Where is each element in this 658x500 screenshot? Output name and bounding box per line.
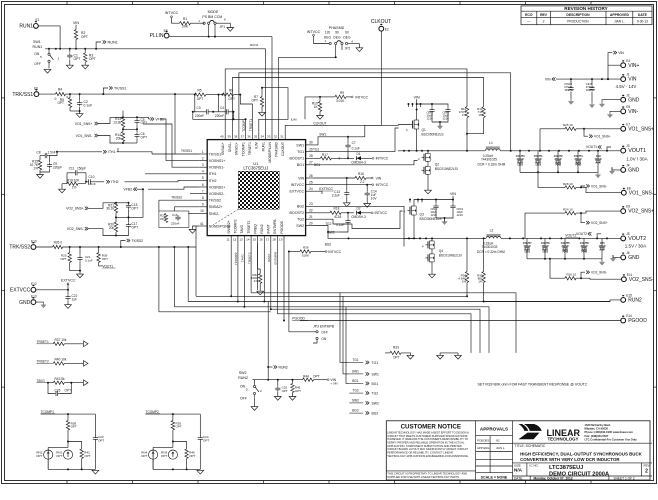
svg-text:INTVCC: INTVCC — [165, 11, 179, 15]
svg-text:DEG: DEG — [324, 35, 332, 39]
svg-text:LTC3875EUJ: LTC3875EUJ — [549, 465, 583, 471]
svg-text:SW2: SW2 — [239, 371, 247, 375]
svg-text:CLKOUT: CLKOUT — [281, 142, 285, 156]
jumper JP3 ENTMPB — [289, 325, 335, 344]
svg-text:INTVCC: INTVCC — [376, 183, 389, 187]
svg-text:GND: GND — [628, 97, 640, 103]
svg-text:1: 1 — [202, 150, 204, 154]
svg-text:1630 McCarthy Blvd.: 1630 McCarthy Blvd. — [585, 423, 612, 427]
svg-text:PS BM CCM: PS BM CCM — [202, 15, 222, 19]
wire BG2 label segment — [325, 242, 332, 246]
svg-text:C8: C8 — [36, 151, 40, 155]
svg-text:R28 10: R28 10 — [563, 182, 573, 186]
svg-text:OFF: OFF — [321, 330, 327, 334]
net stub BG1 — [349, 379, 378, 386]
svg-text:R16: R16 — [358, 172, 364, 176]
svg-text:20k: 20k — [109, 226, 115, 230]
resistor R14 20k — [115, 132, 125, 144]
svg-text:ENTMPB: ENTMPB — [274, 252, 278, 265]
wire RUN1 terminal to rail — [38, 26, 60, 49]
svg-text:E5: E5 — [626, 105, 630, 109]
U1 pin 39 SNS1- — [227, 132, 232, 152]
wire VFB1 to pin 2 — [161, 119, 200, 161]
svg-text:19: 19 — [279, 238, 283, 242]
svg-text:OPT: OPT — [393, 355, 400, 359]
svg-text:REV: REV — [540, 13, 548, 17]
svg-text:C26: C26 — [55, 388, 61, 392]
svg-text:OFF: OFF — [240, 397, 247, 401]
svg-text:SNSD1+: SNSD1+ — [235, 142, 239, 155]
svg-text:DESCRIPTION: DESCRIPTION — [566, 13, 590, 17]
svg-text:BOOST1: BOOST1 — [290, 157, 305, 161]
svg-text:21: 21 — [309, 215, 313, 219]
svg-text:OPT: OPT — [102, 257, 108, 261]
svg-text:D1: D1 — [356, 152, 360, 156]
svg-text:OPT: OPT — [176, 425, 182, 429]
capacitor C8 1.5nF — [36, 151, 58, 159]
svg-text:SW1: SW1 — [319, 133, 326, 137]
svg-text:ITH1: ITH1 — [209, 172, 217, 176]
inductor L1 0.25uH — [478, 141, 621, 166]
U1 pin 9 SNSA2+ — [200, 203, 223, 210]
ground for E13 — [36, 302, 46, 308]
wire ITH1 to pin 4 — [118, 148, 200, 174]
resistor R20 20k — [108, 222, 118, 236]
svg-text:13.3k: 13.3k — [113, 120, 121, 124]
wire PLLIN to MODE pin — [169, 36, 272, 133]
capacitor CIN5 10uF 1210 — [417, 104, 435, 122]
U1 pin 21 TG2 — [297, 215, 313, 222]
terminal E2 CLKOUT — [371, 19, 391, 31]
svg-text:J2: J2 — [626, 93, 630, 97]
svg-text:OPT: OPT — [197, 97, 204, 101]
U1 pin 1 TK/SS1 — [200, 150, 221, 157]
svg-text:J3: J3 — [626, 144, 630, 148]
svg-text:VO2_SNS-: VO2_SNS- — [67, 227, 84, 231]
svg-text:18: 18 — [272, 238, 276, 242]
U1 pin 17 IFAST — [266, 224, 271, 243]
capacitor C4 220nF — [213, 95, 234, 118]
capacitor CIN6 10uF 1210 — [431, 103, 451, 129]
svg-text:28: 28 — [309, 154, 313, 158]
svg-text:TRSET2: TRSET2 — [247, 220, 251, 233]
svg-text:OFF: OFF — [34, 62, 41, 66]
svg-text:VIN: VIN — [376, 176, 382, 180]
resistor R33 OPT — [385, 346, 414, 360]
capacitor C2 0.1uF — [76, 94, 92, 117]
net arrow VFB1 — [137, 117, 164, 121]
U1 pin 35 ILIM — [254, 132, 259, 149]
U1 pin 33 MODE/PLLIN — [267, 132, 272, 163]
svg-text:TG2: TG2 — [352, 389, 358, 393]
transistor Q4 BSC010NE2LSI — [422, 238, 462, 257]
net arrow ITH1 — [57, 150, 115, 154]
svg-text:0.1uF: 0.1uF — [336, 223, 344, 227]
node EXTVCC pin net — [313, 187, 334, 194]
U1 pin 10 SNS2- — [200, 209, 220, 216]
svg-text:Fax: (408)434-0507: Fax: (408)434-0507 — [585, 434, 609, 438]
wire EXTVCC — [36, 289, 69, 291]
terminal E7 VO1_SNS+ — [621, 122, 654, 132]
terminal E12 EXTVCC — [10, 282, 37, 293]
wire J2 gnd — [599, 100, 620, 108]
svg-text:E6: E6 — [34, 87, 38, 91]
svg-text:CLKOUT: CLKOUT — [313, 121, 326, 125]
title block title area — [513, 443, 653, 480]
svg-text:TCOMP2: TCOMP2 — [146, 410, 160, 414]
svg-text:8: 8 — [202, 196, 204, 200]
svg-text:R5: R5 — [198, 89, 202, 93]
svg-text:12: 12 — [233, 238, 237, 242]
svg-text:CMDSH-3: CMDSH-3 — [351, 215, 366, 219]
U1 pin 37 TCOMP1 — [241, 132, 246, 156]
svg-text:TECHNOLOGY: TECHNOLOGY — [548, 437, 579, 442]
svg-text:SW2: SW2 — [296, 224, 304, 228]
svg-text:+ VIN: + VIN — [330, 382, 337, 386]
svg-text:16V: 16V — [586, 88, 591, 92]
resistor R25 OPT — [60, 247, 80, 271]
U1 pin 7 VOSNS2- — [200, 189, 226, 196]
wire PHASMD to pin 32 — [279, 56, 337, 132]
svg-text:THIS CIRCUIT IS PROPRIETARY TO: THIS CIRCUIT IS PROPRIETARY TO LINEAR TE… — [387, 472, 467, 476]
svg-text:R25 10: R25 10 — [563, 123, 573, 127]
svg-text:OPT: OPT — [98, 438, 104, 442]
svg-text:90: 90 — [335, 31, 339, 35]
svg-text:ON: ON — [34, 52, 40, 56]
svg-text:RUN2: RUN2 — [279, 365, 288, 369]
wire TK/SS2 to pin 8 — [159, 195, 200, 211]
svg-text:BSC010NE2LSI: BSC010NE2LSI — [439, 253, 462, 257]
node VIN stage2 — [409, 192, 456, 204]
U1 pin 20 SW2 — [296, 221, 313, 228]
svg-text:36.1k: 36.1k — [106, 207, 114, 211]
U1 pin 30 SW1 — [296, 141, 313, 148]
svg-text:VO1_SNS+: VO1_SNS+ — [594, 135, 611, 139]
svg-text:TK/SS1: TK/SS1 — [209, 152, 221, 156]
resistor R6 OPT — [219, 89, 242, 101]
svg-text:16V: 16V — [564, 88, 569, 92]
resistor R28 10 sense — [520, 172, 621, 192]
resistor R44 OPT — [303, 374, 337, 382]
svg-text:TK/SS2: TK/SS2 — [209, 199, 221, 203]
svg-text:CMDSH-3: CMDSH-3 — [351, 161, 366, 165]
terminal VOUT2 J5 — [621, 232, 646, 242]
wire left risers to buses — [159, 247, 188, 312]
transistor Q2 BSC010NE2LSI — [418, 151, 458, 171]
svg-text:9: 9 — [202, 203, 204, 207]
capacitor C18 0.1uF — [335, 213, 350, 232]
svg-text:VOUT2: VOUT2 — [565, 234, 576, 238]
U1 pin 25 INTVCC — [291, 181, 313, 188]
resistor R43 5k TAVG — [37, 377, 89, 386]
svg-text:BSC050NE2LS: BSC050NE2LS — [422, 132, 444, 136]
svg-text:OPT: OPT — [282, 389, 288, 393]
svg-text:20k: 20k — [116, 137, 122, 141]
capacitor C20 100uF 10V — [598, 238, 606, 258]
svg-text:RUN1: RUN1 — [108, 41, 118, 45]
terminal E1 RUN1 — [19, 18, 39, 29]
title block customer notice — [386, 421, 650, 480]
svg-text:INTVCC: INTVCC — [328, 250, 341, 254]
svg-text:Phone: (408)432-1900 www.line: Phone: (408)432-1900 www.linear.com — [585, 430, 634, 434]
svg-text:VO1_SNS-: VO1_SNS- — [76, 134, 93, 138]
terminal E10 TRK/SS2 — [9, 239, 37, 250]
svg-text:VIN: VIN — [414, 96, 420, 100]
net arrow TK/SS2 — [121, 239, 143, 247]
capacitor COUT6 100uF 6.3V — [541, 238, 550, 258]
svg-text:2: 2 — [202, 156, 204, 160]
resistor R4 0 — [39, 88, 195, 155]
capacitor COUT7 100uF 6.3V — [523, 238, 532, 258]
wire ILIM to pin 35 — [259, 88, 297, 132]
svg-text:PRODUCTION: PRODUCTION — [567, 19, 589, 23]
svg-text:2.2: 2.2 — [360, 180, 365, 184]
svg-text:VOSNS2+: VOSNS2+ — [209, 185, 226, 189]
svg-text:OPT: OPT — [251, 98, 258, 102]
svg-text:1.0nF: 1.0nF — [88, 182, 96, 186]
svg-text:APP ENG.: APP ENG. — [477, 446, 490, 450]
U1 pin 16 RUN2 — [259, 224, 264, 243]
svg-text:JP1: JP1 — [220, 25, 226, 29]
svg-text:CONVERTER WITH VERY LOW DCR IN: CONVERTER WITH VERY LOW DCR INDUCTOR — [520, 457, 620, 462]
svg-text:SW1: SW1 — [372, 372, 379, 376]
svg-text:JIAN L.: JIAN L. — [496, 446, 505, 450]
resistor R1 20K — [180, 17, 205, 28]
capacitor CIN7 270uF 16V — [586, 79, 595, 108]
svg-text:SNSA1+: SNSA1+ — [221, 142, 225, 155]
capacitor C19 100uF 10V — [594, 151, 602, 173]
svg-text:OPT: OPT — [132, 226, 139, 230]
svg-text:TCOMP2: TCOMP2 — [234, 252, 238, 265]
svg-text:BG1: BG1 — [372, 382, 379, 386]
svg-text:1.5V / 30A: 1.5V / 30A — [625, 244, 647, 249]
svg-text:PHASMD: PHASMD — [275, 142, 279, 157]
svg-text:ITH1: ITH1 — [108, 150, 115, 154]
svg-text:C11: C11 — [69, 166, 75, 170]
svg-text:BG2: BG2 — [297, 205, 304, 209]
svg-text:SHEET 1 OF 2: SHEET 1 OF 2 — [614, 477, 635, 481]
svg-text:R9: R9 — [340, 91, 344, 95]
wire pin 41 SGND — [189, 226, 200, 296]
U1 pin 38 SNSD1+ — [234, 132, 239, 155]
svg-text:ON: ON — [321, 337, 326, 341]
svg-text:D2: D2 — [356, 207, 360, 211]
wire VFB2 junction — [128, 189, 144, 218]
wire PGOOD to bus — [300, 320, 621, 322]
svg-text:OPT: OPT — [81, 35, 88, 39]
resistor R9 3.01K — [319, 91, 369, 103]
svg-text:VIN: VIN — [618, 51, 624, 55]
svg-text:BG2: BG2 — [352, 409, 359, 413]
resistor R36 100K ENTMPB pullup — [288, 246, 342, 258]
svg-text:39: 39 — [227, 135, 231, 139]
node INTVCC for R1 — [165, 11, 180, 23]
svg-text:R18: R18 — [334, 207, 340, 211]
svg-text:26: 26 — [309, 174, 313, 178]
svg-text:SET R33=80K ohm FOR FAST TRANS: SET R33=80K ohm FOR FAST TRANSIENT RESPO… — [478, 382, 587, 386]
wire output gnd rail 2 — [527, 255, 616, 265]
svg-text:INTVCC: INTVCC — [375, 211, 388, 215]
svg-text:OPT: OPT — [295, 389, 301, 393]
svg-text:EXTVCC: EXTVCC — [10, 288, 31, 294]
svg-text:VOSNS1-: VOSNS1- — [209, 166, 226, 170]
svg-text:7343: 7343 — [555, 163, 561, 167]
capacitor C15 OPT — [116, 202, 138, 218]
svg-text:R4: R4 — [58, 88, 62, 92]
svg-text:VOUT2: VOUT2 — [628, 236, 646, 242]
svg-text:TK/SS1: TK/SS1 — [181, 149, 192, 153]
capacitor C17 OPT — [115, 217, 138, 236]
capacitor C16 220nF — [171, 213, 181, 226]
capacitor COUT4 330uF 2.5V — [574, 151, 583, 173]
transistor Q3 BSC050NE2LS — [403, 204, 441, 239]
svg-text:RUN1: RUN1 — [261, 142, 265, 151]
jumper JP2 PHASMD — [324, 26, 363, 57]
svg-text:PHASMD: PHASMD — [329, 26, 345, 30]
svg-text:IFAST: IFAST — [267, 253, 271, 262]
svg-text:1%: 1% — [462, 280, 467, 284]
wire SNS1- sense line — [232, 78, 483, 133]
wire RUN2 node — [252, 302, 302, 381]
terminal E8 VO1_SNS- — [621, 186, 653, 196]
svg-text:OPT: OPT — [57, 101, 64, 105]
svg-text:3.01K: 3.01K — [336, 99, 345, 103]
svg-text:VFB1: VFB1 — [155, 118, 164, 122]
capacitor C7 0.1uF — [345, 137, 359, 160]
svg-text:BSC010NE2LSI: BSC010NE2LSI — [435, 167, 458, 171]
U1 pin 28 BOOST1 — [290, 154, 314, 161]
svg-text:1%: 1% — [33, 166, 38, 170]
svg-text:15: 15 — [253, 238, 257, 242]
svg-text:BSC050NE2LS: BSC050NE2LS — [420, 217, 442, 221]
svg-text:APPROVED: APPROVED — [610, 13, 630, 17]
svg-text:GND: GND — [628, 168, 640, 174]
wire TG2 net — [313, 211, 402, 229]
svg-text:TK/SS2: TK/SS2 — [171, 195, 182, 199]
current source network TCOMP2 (RN4 RN3 R46 R39 C24) — [141, 410, 209, 474]
svg-text:BG1: BG1 — [314, 163, 321, 167]
svg-text:VO2_SNS+: VO2_SNS+ — [591, 221, 608, 225]
svg-text:PCB DES.: PCB DES. — [477, 438, 490, 442]
terminal J6 GND out2 — [621, 251, 640, 261]
svg-text:TRK/SS2: TRK/SS2 — [9, 245, 30, 251]
resistor R5a OPT on TKSS1 — [57, 94, 79, 111]
wire SW1 rail stage1 — [398, 150, 485, 152]
svg-text:OPT: OPT — [65, 388, 72, 392]
svg-text:TECHNOLOGY APPLICATIONS ENGINE: TECHNOLOGY APPLICATIONS ENGINEERING FOR … — [387, 454, 469, 458]
svg-text:JIAN L.: JIAN L. — [614, 19, 625, 23]
capacitor C14 1uF 10V — [364, 185, 378, 208]
svg-text:OPT: OPT — [56, 454, 62, 458]
svg-text:20: 20 — [309, 221, 313, 225]
svg-text:R17: R17 — [322, 153, 328, 157]
svg-text:744301025: 744301025 — [481, 158, 497, 162]
op-amp U1 LTC3875EUJ controller IC — [207, 140, 305, 236]
wire pin wires to bottom buses — [231, 243, 289, 332]
svg-text:E7: E7 — [626, 122, 630, 126]
svg-text:220pF: 220pF — [53, 165, 62, 169]
svg-text:TRSET1: TRSET1 — [248, 142, 252, 155]
svg-text:DCR = 0.32m OHM: DCR = 0.32m OHM — [477, 250, 505, 254]
svg-text:16: 16 — [259, 238, 263, 242]
svg-text:ILIM: ILIM — [291, 117, 297, 121]
svg-text:IFAST: IFAST — [267, 224, 271, 233]
svg-text:GND: GND — [628, 255, 640, 261]
svg-text:ITH2: ITH2 — [111, 180, 118, 184]
svg-text:744301033: 744301033 — [482, 245, 498, 249]
svg-text:1210: 1210 — [542, 250, 548, 254]
svg-text:EXTVCC: EXTVCC — [61, 279, 76, 283]
svg-text:1210: 1210 — [457, 213, 464, 217]
svg-text:BG1: BG1 — [352, 379, 359, 383]
capacitor CIN3 10uF 1210 — [436, 200, 463, 225]
svg-text:E11: E11 — [627, 273, 633, 277]
net arrow VFB2 — [124, 188, 144, 192]
svg-text:PGOOD: PGOOD — [628, 318, 647, 324]
svg-text:CUSTOMER NOTICE: CUSTOMER NOTICE — [401, 424, 461, 431]
svg-text:TG1: TG1 — [313, 148, 319, 152]
svg-text:MODE/PLLIN: MODE/PLLIN — [268, 142, 272, 163]
svg-text:41: 41 — [200, 222, 204, 226]
svg-text:VO2_SNS-: VO2_SNS- — [629, 277, 654, 283]
svg-text:RUN1: RUN1 — [250, 43, 258, 47]
svg-text:EXTVCC: EXTVCC — [290, 190, 305, 194]
svg-text:R26 10: R26 10 — [567, 273, 577, 277]
svg-text:TRSET1: TRSET1 — [37, 340, 49, 344]
U1 pin 24 EXTVCC — [290, 187, 314, 194]
svg-text:INTVCC: INTVCC — [355, 95, 368, 99]
svg-text:ON: ON — [240, 385, 246, 389]
svg-text:27: 27 — [309, 161, 313, 165]
net arrow VOUT1 label — [586, 145, 611, 151]
svg-text:SNSD2+: SNSD2+ — [227, 220, 231, 233]
capacitor C9 220pF — [40, 156, 62, 173]
svg-text:OPT: OPT — [36, 454, 42, 458]
svg-text:E12: E12 — [31, 282, 37, 286]
svg-text:C4: C4 — [220, 106, 224, 110]
resistor R19 10K 1% — [59, 179, 86, 193]
svg-text:BG1: BG1 — [297, 163, 304, 167]
svg-text:E9: E9 — [626, 205, 630, 209]
svg-text:7343: 7343 — [581, 250, 587, 254]
svg-text:OPT: OPT — [141, 135, 148, 139]
svg-text:E14: E14 — [626, 314, 632, 318]
svg-text:3: 3 — [202, 163, 204, 167]
ground pair near R33 — [437, 353, 462, 359]
svg-text:R1: R1 — [183, 17, 187, 21]
svg-text:TCOMP1: TCOMP1 — [242, 118, 246, 132]
svg-text:INTVCC: INTVCC — [307, 30, 321, 34]
svg-text:DCR = 0.32m OHM: DCR = 0.32m OHM — [478, 162, 506, 166]
terminal J2 GND (input) — [621, 93, 640, 103]
svg-text:ILIM: ILIM — [255, 142, 259, 149]
svg-text:RUN2: RUN2 — [628, 298, 642, 304]
wire SW2 rail stage2 — [404, 237, 486, 239]
svg-text:7: 7 — [202, 189, 204, 193]
svg-text:JP3 ENTMPB: JP3 ENTMPB — [313, 325, 335, 329]
U1 pin 23 BG2 — [297, 202, 313, 209]
wire SW1 net — [313, 125, 398, 145]
svg-text:36: 36 — [247, 135, 251, 139]
U1 pin 34 RUN1 — [261, 132, 266, 151]
svg-text:TRK/SS1: TRK/SS1 — [12, 92, 33, 98]
svg-text:VO2_SNS+: VO2_SNS+ — [66, 207, 84, 211]
capacitor C5 OPT — [123, 116, 147, 130]
net stub SW2 — [349, 399, 379, 406]
capacitor CIN4 10uF 1210 — [431, 200, 439, 219]
svg-text:PGOOD: PGOOD — [292, 317, 305, 321]
svg-text:TAVG: TAVG — [241, 254, 245, 262]
